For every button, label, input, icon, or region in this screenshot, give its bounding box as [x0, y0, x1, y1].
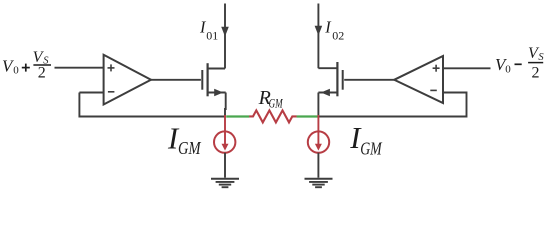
wire: IGM1 to ground — [224, 153, 226, 178]
label I01 — [199, 17, 218, 42]
current arrow I02 — [315, 26, 323, 36]
current source IGM2 — [308, 115, 329, 153]
svg-text:2: 2 — [38, 65, 46, 82]
svg-text:01: 01 — [206, 28, 218, 42]
svg-text:GM: GM — [360, 139, 382, 159]
current arrow I01 — [221, 27, 229, 37]
wire: M1 drain up — [224, 4, 226, 69]
svg-text:0: 0 — [505, 63, 511, 75]
transistor M1 — [202, 63, 225, 96]
current source IGM1 — [214, 115, 235, 153]
label IGM left — [167, 122, 201, 158]
wire: right +input — [443, 67, 491, 69]
wire: left +input — [55, 67, 105, 69]
ground right — [305, 179, 333, 188]
wire: right feedback loop — [318, 93, 467, 117]
wire: left feedback loop — [79, 93, 226, 117]
op-amp U1 — [104, 55, 151, 105]
svg-text:2: 2 — [532, 65, 540, 82]
wire: node A green left — [226, 115, 249, 117]
svg-text:S: S — [538, 52, 544, 63]
wire: M2 gate to U2 output — [344, 79, 394, 81]
label I02 — [324, 18, 344, 43]
label V0 + VS/2 (left input) — [2, 49, 51, 81]
wire: node B green right — [297, 115, 318, 117]
resistor RGM — [249, 110, 297, 122]
transistor M2 — [318, 62, 342, 96]
svg-text:GM: GM — [269, 96, 284, 111]
svg-text:GM: GM — [178, 138, 201, 158]
wire: U1 output to M1 gate — [150, 79, 201, 81]
wire: M2 source down to node B — [317, 93, 319, 118]
ground left — [211, 179, 239, 188]
label V0 - VS/2 (right input) — [495, 45, 544, 82]
wire: left -input — [79, 92, 104, 94]
label IGM right — [349, 121, 382, 158]
label RGM — [258, 87, 284, 111]
svg-text:02: 02 — [332, 29, 344, 43]
wire: IGM2 to ground — [317, 153, 319, 178]
op-amp U2 — [394, 56, 443, 103]
svg-text:0: 0 — [13, 65, 19, 77]
wire: M1 source down to node A — [225, 93, 227, 111]
wire: M2 drain up — [317, 4, 319, 69]
